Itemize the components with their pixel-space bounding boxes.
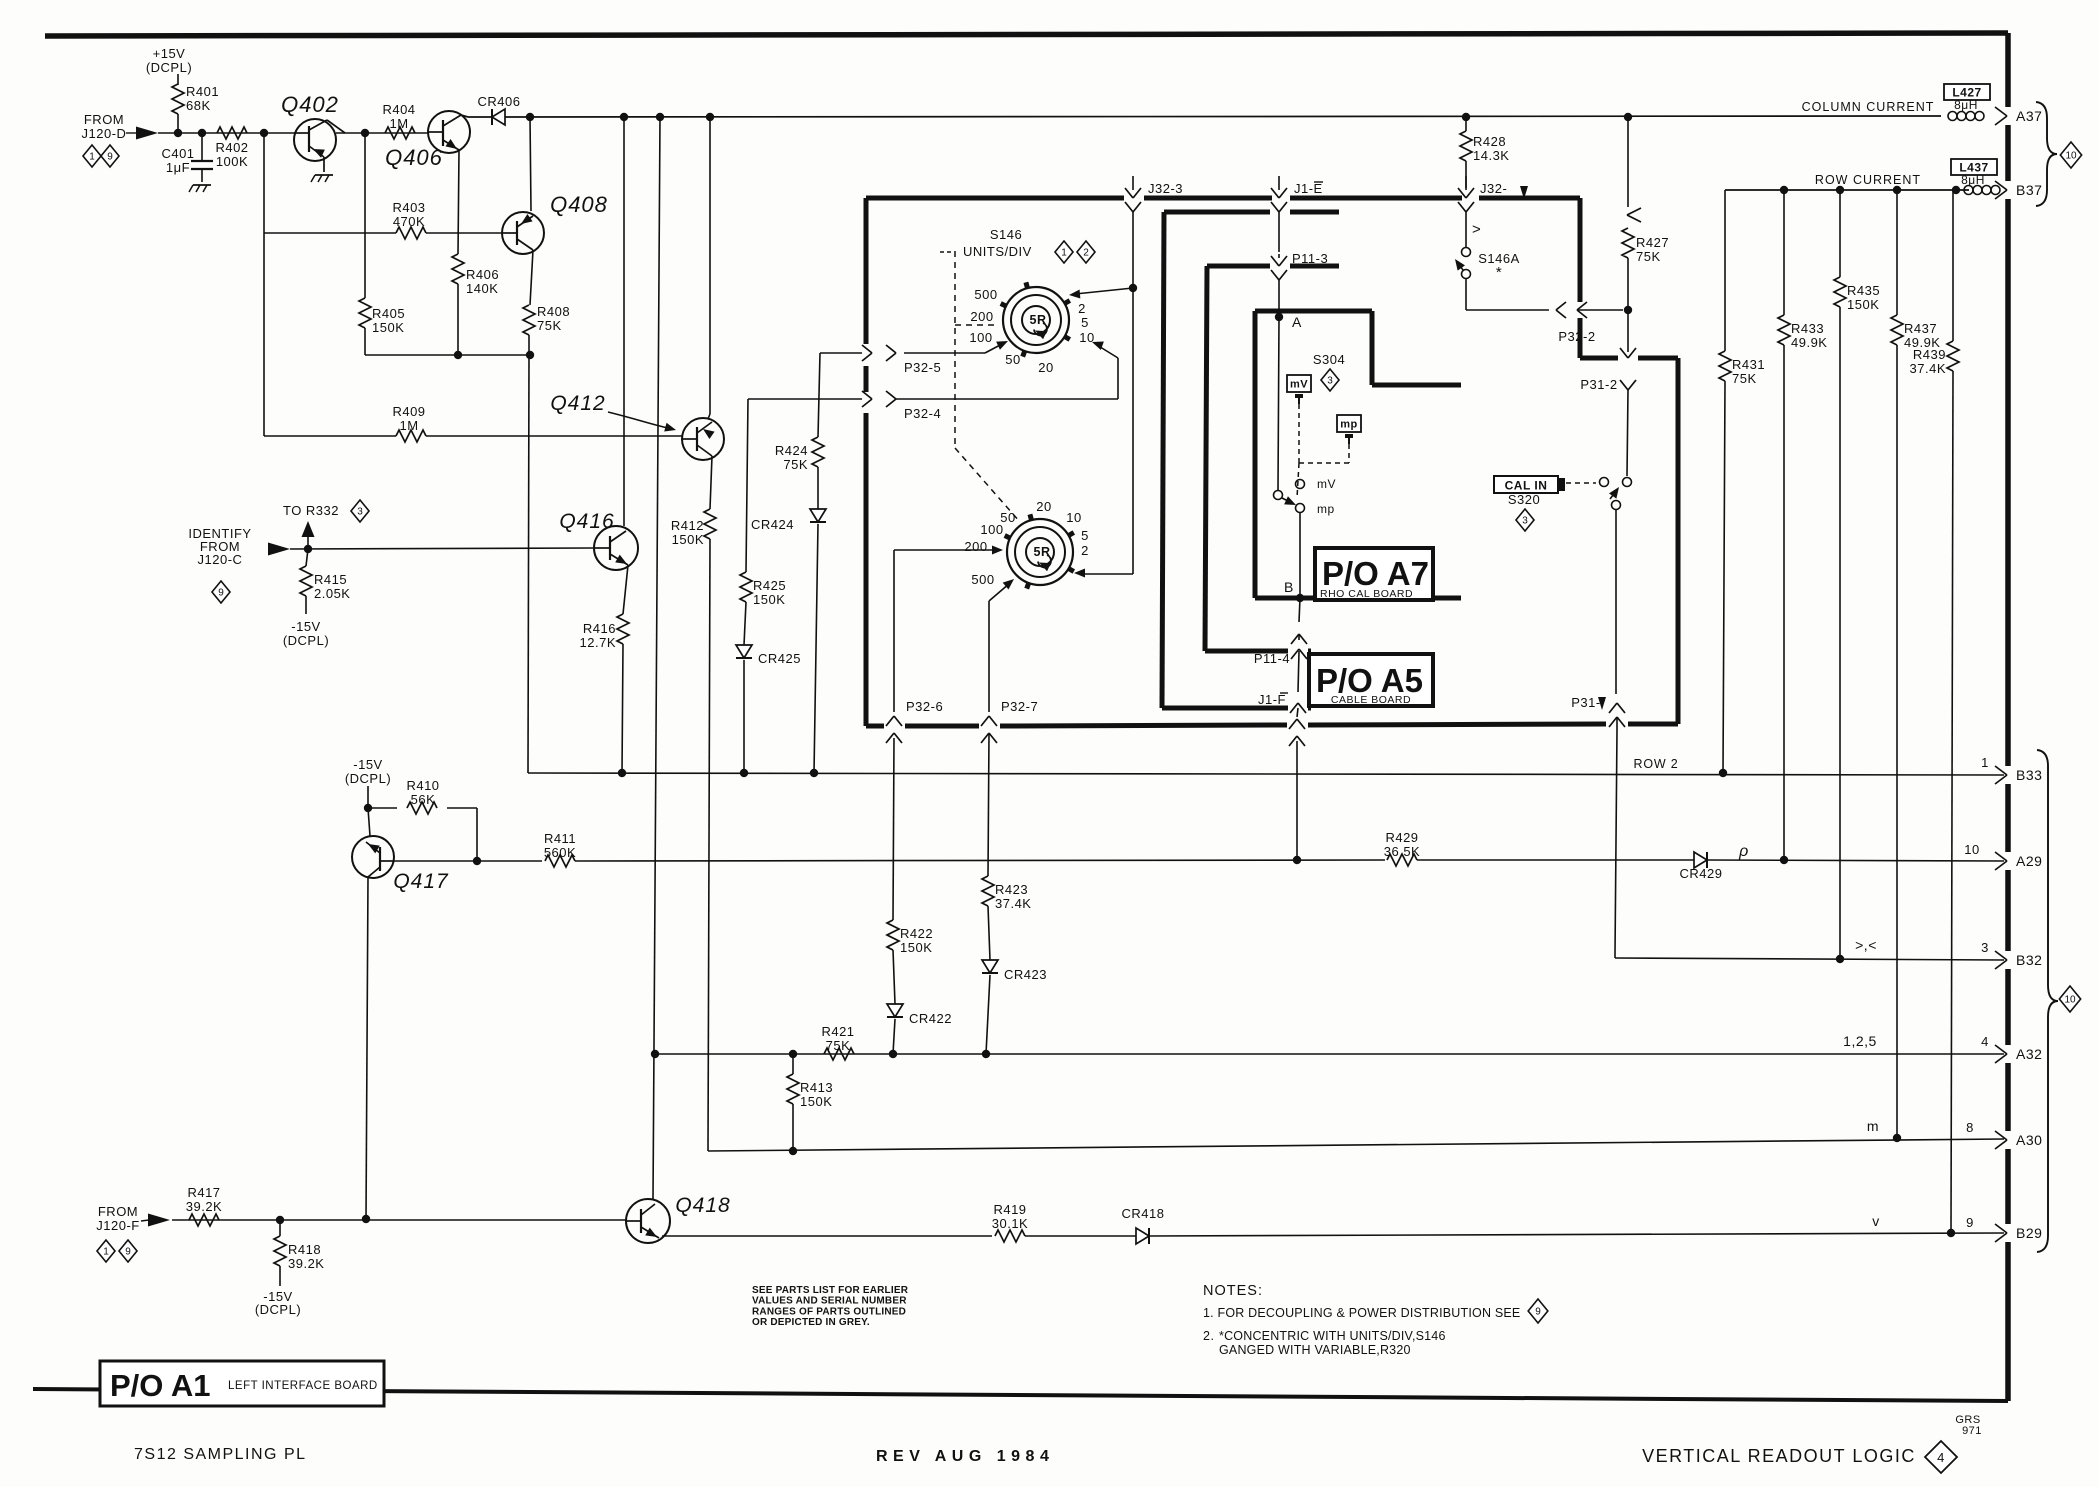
resistor R404	[382, 102, 415, 139]
svg-text:R424: R424	[775, 443, 808, 458]
tag diamond 1	[83, 145, 101, 167]
svg-text:Q416: Q416	[559, 510, 614, 533]
note 2b	[1219, 1343, 1411, 1357]
wire rail to Q408 collector	[530, 117, 531, 211]
title REV AUG 1984	[876, 1448, 1054, 1465]
connector B32	[1995, 951, 2042, 969]
svg-text:75K: 75K	[537, 318, 562, 333]
wire input rail y133	[158, 129, 429, 137]
svg-text:20: 20	[1038, 360, 1053, 375]
connector P31-2	[1580, 377, 1636, 476]
svg-text:R403: R403	[392, 200, 425, 215]
svg-text:8μH: 8μH	[1961, 173, 1985, 187]
ground under C401	[189, 185, 211, 192]
resistor R431	[1719, 190, 1765, 773]
svg-text:1,2,5: 1,2,5	[1843, 1033, 1877, 1049]
label S146 UNITS/DIV	[940, 227, 1032, 259]
svg-text:560K: 560K	[544, 845, 576, 860]
resistor R425	[740, 399, 786, 645]
note 1	[1203, 1299, 1548, 1323]
resistor R412	[671, 509, 716, 547]
svg-text:R405: R405	[372, 306, 405, 321]
svg-text:5R: 5R	[1030, 313, 1047, 327]
svg-text:-15V: -15V	[353, 757, 382, 772]
net label 125	[1843, 1033, 1877, 1049]
svg-text:R404: R404	[382, 102, 415, 117]
wire P32-7 to 500 tap	[989, 576, 1017, 601]
svg-text:RANGES OF PARTS OUTLINED: RANGES OF PARTS OUTLINED	[752, 1306, 906, 1317]
wire A29 line mid	[1417, 859, 1694, 861]
wire Q417 emitter down	[366, 877, 368, 1219]
ground under Q402	[311, 175, 333, 182]
node FROM J120-D entry	[82, 112, 158, 141]
diode CR425	[736, 645, 801, 666]
power -15V below R418	[255, 1289, 301, 1317]
svg-text:>,<: >,<	[1855, 937, 1877, 953]
svg-text:J120-F: J120-F	[96, 1218, 139, 1233]
note 2	[1203, 1329, 1446, 1343]
tag diamond 3 S320	[1516, 509, 1534, 531]
tag diamond 1 S146	[1055, 241, 1073, 263]
svg-text:(DCPL): (DCPL)	[146, 60, 192, 75]
svg-text:9: 9	[107, 152, 113, 163]
board outline A-box top	[1255, 309, 1372, 314]
border frame bottom edge	[33, 1389, 2008, 1401]
resistor R408	[523, 304, 570, 335]
wire Q416 emitter down	[623, 565, 628, 614]
net label v	[1872, 1213, 1880, 1229]
connector J1-F	[1258, 692, 1305, 746]
wire rail to Q412 collector	[708, 117, 710, 419]
wire S146 wiper from J32-3	[1069, 288, 1133, 299]
net label rho	[1738, 843, 1749, 860]
bus bottom horizontal a	[866, 724, 884, 729]
power -15V above R410	[345, 757, 391, 786]
resistor R423	[982, 876, 1031, 960]
note GRS 971	[1955, 1414, 1982, 1437]
bracket lower connector group	[2037, 750, 2058, 1252]
svg-text:140K: 140K	[466, 281, 498, 296]
connector P32-4	[748, 391, 1118, 421]
bus vertical x1580 upper	[1578, 198, 1583, 302]
bus P11 vertical x1205	[1205, 266, 1207, 651]
tag diamond 9 identify	[212, 581, 230, 603]
svg-text:FROM: FROM	[98, 1204, 138, 1219]
bus J1-F horizontal a	[1162, 706, 1288, 711]
connector A37	[1995, 107, 2042, 125]
connector P31-V	[1571, 695, 1625, 730]
svg-text:2: 2	[1081, 543, 1089, 558]
svg-text:UNITS/DIV: UNITS/DIV	[963, 244, 1032, 259]
svg-text:J1-F: J1-F	[1258, 692, 1286, 707]
wire row current line	[1725, 186, 1969, 194]
svg-text:P32-2: P32-2	[1558, 329, 1595, 344]
bus J1 horizontal top a	[1164, 210, 1270, 215]
svg-text:150K: 150K	[1847, 297, 1879, 312]
svg-text:B32: B32	[2016, 952, 2042, 968]
svg-text:10: 10	[1066, 510, 1081, 525]
switch S304 contacts	[1274, 477, 1337, 516]
connector J32-V	[1458, 176, 1528, 199]
svg-text:3: 3	[357, 507, 363, 518]
svg-text:150K: 150K	[800, 1094, 832, 1109]
svg-text:9: 9	[1535, 1307, 1541, 1318]
net label COLUMN CURRENT	[1802, 100, 1935, 114]
wire m line	[708, 1134, 2004, 1155]
svg-text:R429: R429	[1385, 830, 1418, 845]
diode CR418	[1122, 1206, 1165, 1244]
svg-text:R423: R423	[995, 882, 1028, 897]
svg-text:P/O A7: P/O A7	[1322, 555, 1429, 592]
bus J32 top segment a	[866, 196, 1124, 201]
connector J32-3	[1125, 176, 1183, 222]
svg-text:A37: A37	[2016, 108, 2042, 124]
svg-text:Q418: Q418	[675, 1194, 730, 1217]
svg-text:P31-2: P31-2	[1580, 377, 1617, 392]
bus J32 top segment c	[1290, 196, 1462, 201]
wire P31 down to B32 corner	[1615, 730, 1617, 958]
svg-text:*: *	[1496, 264, 1502, 281]
svg-text:CR425: CR425	[758, 651, 801, 666]
svg-text:CR429: CR429	[1680, 866, 1723, 881]
connector P11-3	[1271, 251, 1328, 317]
svg-text:R417: R417	[187, 1185, 220, 1200]
svg-text:68K: 68K	[186, 98, 211, 113]
svg-text:1: 1	[1061, 248, 1067, 259]
svg-text:150K: 150K	[372, 320, 404, 335]
node B	[1284, 579, 1304, 602]
wire rail to Q416 collector	[623, 117, 625, 526]
board label P/O A7 box	[1315, 548, 1433, 600]
svg-text:1: 1	[89, 152, 95, 163]
wire identify line	[290, 545, 593, 553]
svg-text:R410: R410	[406, 778, 439, 793]
svg-text:R401: R401	[186, 84, 219, 99]
wire rail drop to R403	[263, 133, 265, 233]
connector bus entry below R427	[1620, 348, 1636, 358]
svg-text:B37: B37	[2016, 182, 2042, 198]
bus bottom horizontal d	[1308, 724, 1606, 725]
connector J1-E	[1271, 176, 1323, 252]
svg-text:8μH: 8μH	[1954, 98, 1978, 112]
bus upper-right horizontal a	[1580, 356, 1618, 361]
resistor R433	[1778, 190, 1827, 858]
svg-text:Q406: Q406	[385, 145, 443, 170]
bus bottom horizontal e	[1628, 722, 1678, 727]
net label gtlt	[1855, 937, 1877, 953]
net label m	[1867, 1118, 1879, 1134]
svg-text:1. FOR DECOUPLING & POWER DIST: 1. FOR DECOUPLING & POWER DISTRIBUTION S…	[1203, 1306, 1520, 1320]
resistor R417	[186, 1185, 222, 1226]
wire R403 line	[264, 232, 503, 234]
svg-text:ρ: ρ	[1738, 843, 1749, 860]
svg-text:200: 200	[964, 539, 987, 554]
diode CR429	[1680, 852, 1723, 881]
wire P32-6 to 200 tap	[894, 546, 1003, 557]
svg-text:VALUES AND SERIAL NUMBER: VALUES AND SERIAL NUMBER	[752, 1296, 907, 1307]
diode CR423	[982, 960, 1047, 982]
svg-text:B33: B33	[2016, 767, 2042, 783]
resistor R429	[1384, 830, 1420, 866]
bus P11-4 horizontal a	[1205, 649, 1288, 654]
wire J32-3 drop	[1129, 222, 1137, 574]
note parts list	[752, 1285, 909, 1328]
diode CR424	[751, 509, 826, 532]
connector B29	[1995, 1224, 2042, 1242]
wire Q406 collector to CR406	[461, 115, 492, 117]
svg-text:8: 8	[1966, 1120, 1974, 1135]
wire CR425 to ROW2	[743, 660, 745, 773]
tag diamond 4 title	[1925, 1441, 1957, 1473]
wire rail drop x660 to Q418	[653, 117, 660, 1199]
svg-text:COLUMN CURRENT: COLUMN CURRENT	[1802, 100, 1935, 114]
pin number 10 A29	[1964, 842, 1979, 857]
svg-text:R406: R406	[466, 267, 499, 282]
resistor R409	[392, 404, 426, 442]
inductor L437	[1964, 186, 2000, 195]
node mp box	[1337, 415, 1361, 444]
resistor R410	[368, 778, 477, 861]
svg-text:P32-5: P32-5	[904, 360, 941, 375]
svg-text:R437: R437	[1904, 321, 1937, 336]
svg-text:R422: R422	[900, 926, 933, 941]
bus left vertical x866 mid	[864, 366, 869, 392]
bus P11-4 horizontal b	[1308, 649, 1311, 654]
resistor R415	[300, 549, 350, 614]
transistor Q416	[559, 510, 638, 570]
svg-text:S304: S304	[1313, 352, 1345, 367]
wire P32-6 lower drop	[893, 738, 894, 920]
svg-text:2: 2	[1083, 248, 1089, 259]
resistor R406	[452, 254, 499, 352]
bus J1 horizontal top b	[1290, 210, 1339, 215]
capacitor C401	[161, 133, 213, 182]
svg-text:37.4K: 37.4K	[995, 896, 1031, 911]
svg-text:J1-E: J1-E	[1294, 181, 1323, 196]
connector B33	[1995, 766, 2042, 784]
connector A30	[1995, 1131, 2042, 1149]
resistor R422	[887, 920, 933, 1004]
svg-text:9: 9	[218, 588, 224, 599]
node TO R332	[283, 503, 339, 549]
bus P11 horizontal top b	[1290, 264, 1339, 269]
wire B down to P11-4	[1291, 598, 1307, 659]
bus left vertical x866 lower	[864, 413, 869, 726]
pin number 4 A32	[1981, 1034, 1989, 1049]
wire R408 to node	[528, 335, 530, 355]
connector A29	[1995, 852, 2042, 870]
svg-text:P32-4: P32-4	[904, 406, 941, 421]
svg-text:1: 1	[103, 1247, 109, 1258]
svg-text:1M: 1M	[399, 418, 418, 433]
svg-text:(DCPL): (DCPL)	[255, 1302, 301, 1317]
label S146 positions	[969, 287, 1094, 375]
note NOTES heading	[1203, 1283, 1263, 1299]
svg-text:(DCPL): (DCPL)	[345, 771, 391, 786]
resistor R424	[775, 353, 824, 509]
bus J1-F horizontal b	[1308, 706, 1311, 711]
svg-text:ROW CURRENT: ROW CURRENT	[1815, 173, 1921, 187]
wire P32-7 lower drop	[988, 733, 989, 876]
connector P32-7	[981, 601, 1038, 743]
resistor R416	[580, 614, 629, 650]
bus vertical x1580 lower	[1578, 318, 1583, 358]
wire v line	[659, 1236, 992, 1238]
connector B37	[1995, 181, 2042, 199]
wire J120-F line	[172, 1215, 627, 1224]
svg-text:SEE PARTS LIST FOR EARLIER: SEE PARTS LIST FOR EARLIER	[752, 1285, 909, 1296]
svg-text:S146: S146	[990, 227, 1022, 242]
resistor R413	[787, 1054, 833, 1152]
svg-text:150K: 150K	[672, 532, 704, 547]
svg-text:CR418: CR418	[1122, 1206, 1165, 1221]
svg-text:P31-: P31-	[1571, 695, 1600, 710]
svg-text:3: 3	[1327, 376, 1333, 387]
svg-text:1μF: 1μF	[166, 160, 190, 175]
connector P32-5	[820, 345, 985, 375]
svg-text:ROW 2: ROW 2	[1634, 757, 1679, 771]
svg-text:100: 100	[969, 330, 992, 345]
wire v line mid	[1025, 1235, 1136, 1237]
resistor R401	[172, 84, 219, 114]
svg-text:5R: 5R	[1034, 545, 1051, 559]
svg-text:R421: R421	[821, 1024, 854, 1039]
svg-text:CR424: CR424	[751, 517, 794, 532]
wire A to switch common	[1278, 317, 1279, 490]
transistor Q402	[281, 92, 339, 172]
svg-text:9: 9	[1966, 1215, 1974, 1230]
connector P11-4	[1254, 651, 1306, 713]
wire R412 down to m-line corner	[708, 539, 710, 1151]
svg-text:VERTICAL READOUT LOGIC: VERTICAL READOUT LOGIC	[1642, 1446, 1916, 1466]
svg-text:2.05K: 2.05K	[314, 586, 350, 601]
bus left vertical x866 upper	[864, 198, 869, 344]
node mV box	[1287, 375, 1311, 404]
wire R408 node down to ROW2 corner	[528, 355, 529, 773]
tag diamond 2 S146	[1077, 241, 1095, 263]
svg-text:R418: R418	[288, 1242, 321, 1257]
svg-text:J120-D: J120-D	[82, 126, 127, 141]
board label P/O A1 box	[100, 1361, 384, 1406]
svg-text:R428: R428	[1473, 134, 1506, 149]
svg-text:150K: 150K	[900, 940, 932, 955]
svg-text:R402: R402	[215, 140, 248, 155]
svg-text:R408: R408	[537, 304, 570, 319]
svg-text:J32-3: J32-3	[1148, 181, 1183, 196]
wire Q402 collector to R404	[327, 120, 345, 133]
resistor R402	[215, 127, 248, 169]
svg-text:R431: R431	[1732, 357, 1765, 372]
svg-text:14.3K: 14.3K	[1473, 148, 1509, 163]
border frame right edge	[2005, 33, 2011, 1401]
svg-text:+15V: +15V	[153, 46, 186, 61]
svg-text:A29: A29	[2016, 853, 2042, 869]
bus upper-right horizontal b	[1638, 356, 1678, 361]
bus bottom horizontal b	[905, 724, 979, 729]
resistor R419	[992, 1202, 1028, 1242]
connector P32-6	[886, 556, 943, 743]
resistor R405	[359, 133, 405, 355]
node IDENTIFY entry	[188, 526, 290, 567]
svg-text:7S12 SAMPLING PL: 7S12 SAMPLING PL	[134, 1446, 307, 1463]
svg-text:A30: A30	[2016, 1132, 2042, 1148]
resistor R427	[1622, 117, 1669, 352]
inductor L437 value box	[1951, 159, 1997, 187]
svg-text:A32: A32	[2016, 1046, 2042, 1062]
svg-text:100K: 100K	[216, 154, 248, 169]
wire S146A to P32-2	[1466, 278, 1549, 310]
svg-text:3: 3	[1981, 940, 1989, 955]
board outline A-box bottom	[1255, 596, 1461, 601]
bus J32 top segment b	[1144, 196, 1272, 201]
bus right vertical x1678	[1676, 358, 1681, 724]
svg-text:200: 200	[970, 309, 993, 324]
svg-text:B29: B29	[2016, 1225, 2042, 1241]
bracket A37-B37 group	[2036, 102, 2057, 206]
resistor R437	[1891, 190, 1940, 1138]
svg-text:1: 1	[1981, 755, 1989, 770]
svg-text:*CONCENTRIC WITH UNITS/DIV,S14: *CONCENTRIC WITH UNITS/DIV,S146	[1219, 1329, 1446, 1343]
wire +15V to R401	[177, 74, 179, 85]
svg-text:36.5K: 36.5K	[1384, 844, 1420, 859]
svg-text:R413: R413	[800, 1080, 833, 1095]
svg-text:49.9K: 49.9K	[1791, 335, 1827, 350]
svg-text:5: 5	[1081, 315, 1089, 330]
svg-text:A: A	[1292, 314, 1302, 330]
svg-text:R416: R416	[583, 621, 616, 636]
svg-text:OR DEPICTED IN GREY.: OR DEPICTED IN GREY.	[752, 1317, 870, 1328]
wire dashed S304 links	[1297, 404, 1349, 498]
svg-text:4: 4	[1981, 1034, 1989, 1049]
svg-text:Q402: Q402	[281, 92, 339, 117]
wire CR423 to 125line	[986, 975, 990, 1054]
svg-text:56K: 56K	[411, 792, 436, 807]
diode CR406	[478, 94, 521, 125]
+15V supply label	[146, 46, 192, 75]
svg-text:P11-4: P11-4	[1254, 651, 1290, 666]
wire P32-4 tap to switch	[1090, 338, 1118, 399]
wire S320 to P31-V	[1615, 509, 1617, 694]
svg-text:Q412: Q412	[550, 392, 605, 415]
svg-text:50: 50	[1005, 352, 1020, 367]
wire -15V to Q417	[364, 786, 372, 836]
bus bottom horizontal c	[1000, 725, 1287, 726]
svg-text:CR423: CR423	[1004, 967, 1047, 982]
wire R401 to rail	[177, 114, 179, 133]
svg-text:75K: 75K	[1732, 371, 1757, 386]
wire R416 to ROW2	[622, 644, 623, 773]
svg-text:CR406: CR406	[478, 94, 521, 109]
bus J32 top segment d	[1479, 196, 1580, 201]
svg-text:P/O A1: P/O A1	[110, 1368, 211, 1403]
svg-text:100: 100	[980, 522, 1003, 537]
diode CR422	[887, 1004, 952, 1026]
wire Q408 emitter down	[530, 250, 533, 305]
svg-text:J120-C: J120-C	[198, 552, 243, 567]
svg-text:J32-: J32-	[1480, 181, 1507, 196]
title VERTICAL READOUT LOGIC	[1642, 1446, 1916, 1466]
transistor Q408	[502, 192, 608, 254]
svg-text:mp: mp	[1317, 502, 1335, 516]
tag diamond 3 R332	[351, 500, 369, 522]
wire CR422 to 125line	[893, 1019, 895, 1054]
svg-text:500: 500	[974, 287, 997, 302]
svg-text:NOTES:: NOTES:	[1203, 1283, 1263, 1299]
transistor Q417	[352, 836, 449, 893]
pin number 1 B33	[1981, 755, 1989, 770]
net label ROW CURRENT	[1815, 173, 1921, 187]
svg-text:CAL IN: CAL IN	[1505, 479, 1548, 493]
